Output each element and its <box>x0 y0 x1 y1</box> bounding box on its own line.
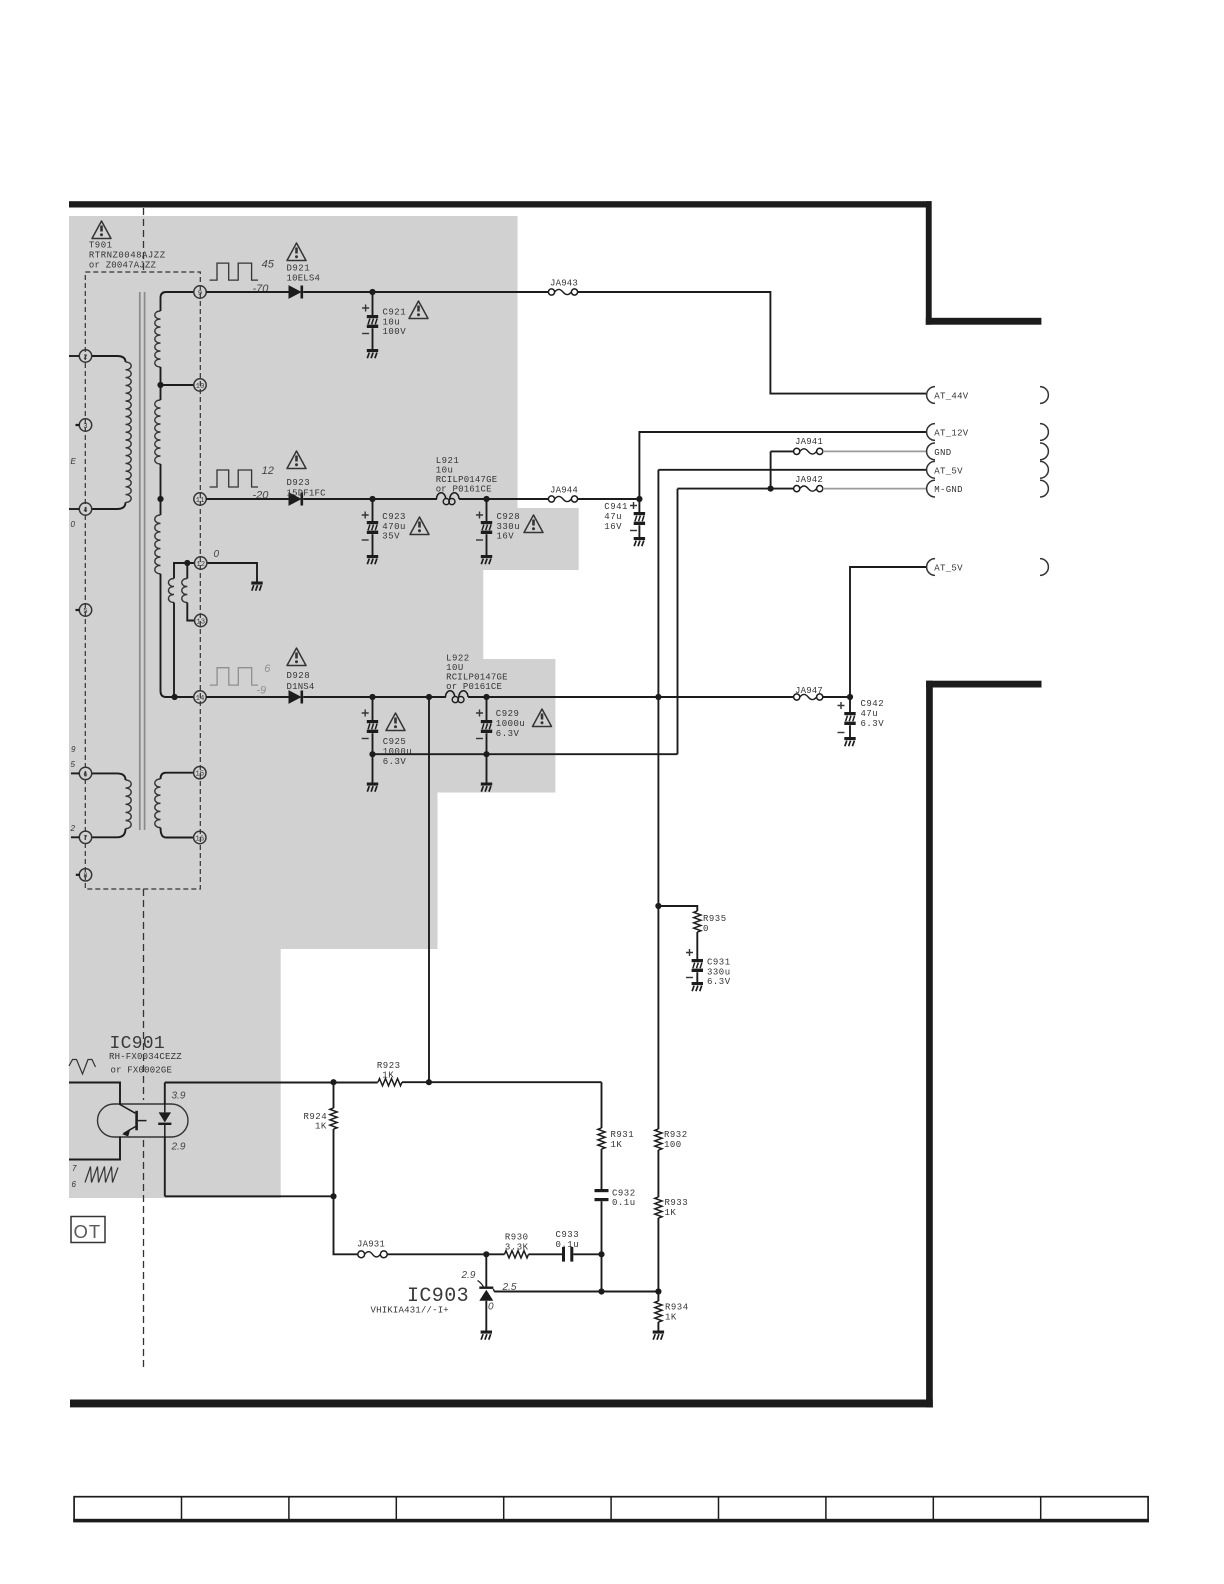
waveform sawtooth above IC901 <box>69 1060 96 1075</box>
warning triangle C929 <box>533 709 552 727</box>
connector AT_5V <box>927 461 1049 478</box>
wire GND corner <box>771 451 794 488</box>
pin 7 <box>79 831 91 843</box>
svg-text:1000u: 1000u <box>496 719 526 729</box>
waveform value -70 <box>253 283 270 295</box>
capacitor C923 <box>362 499 378 555</box>
wire down to JA931 <box>334 1196 358 1254</box>
resistor R924 <box>304 1082 338 1131</box>
svg-text:470u: 470u <box>382 522 406 532</box>
wire R931 to C932 <box>601 1149 603 1189</box>
T901 secondary winding pins 15-16 <box>155 773 194 838</box>
svg-text:2: 2 <box>83 354 87 362</box>
pin 13 <box>195 614 207 626</box>
svg-text:2: 2 <box>70 824 76 833</box>
svg-text:C928: C928 <box>497 512 521 522</box>
svg-text:7: 7 <box>83 835 87 843</box>
wire stub pin 2 <box>69 355 79 357</box>
ground below C923 <box>367 555 378 564</box>
svg-text:R924: R924 <box>304 1112 328 1122</box>
pin 3 <box>79 419 91 431</box>
pin 10 <box>194 379 206 391</box>
ground below C941 <box>634 537 645 546</box>
svg-text:0: 0 <box>703 924 709 934</box>
svg-text:R932: R932 <box>664 1130 688 1140</box>
wire M-GND vertical to negative rail <box>677 489 679 755</box>
wire AT_5V row <box>658 469 926 471</box>
wire D921 to AT_44V via JA943 <box>303 292 926 394</box>
svg-text:RH-FX0034CEZZ: RH-FX0034CEZZ <box>109 1052 182 1062</box>
pin 14 <box>194 691 206 703</box>
IC903 ref tick <box>478 1281 484 1288</box>
svg-text:1K: 1K <box>611 1140 623 1150</box>
warning triangle C921 <box>409 301 428 319</box>
junction C932 bottom <box>598 1251 604 1257</box>
svg-text:L922: L922 <box>446 654 470 664</box>
svg-text:JA944: JA944 <box>550 486 578 496</box>
svg-text:6: 6 <box>72 1180 77 1189</box>
svg-text:-9: -9 <box>256 685 266 697</box>
ground below C928 <box>481 555 492 564</box>
svg-text:C941: C941 <box>604 502 628 512</box>
junction feedback <box>426 1079 432 1085</box>
svg-text:10u: 10u <box>436 466 454 476</box>
wire R923 to R931 corner <box>402 1081 602 1083</box>
svg-text:AT_44V: AT_44V <box>934 392 969 402</box>
node voltage 2.9 opto <box>171 1141 186 1152</box>
IC901 phototransistor <box>120 1105 147 1137</box>
C941 label <box>604 502 637 532</box>
jumper JA943 <box>548 279 578 296</box>
wire stub pin 7 <box>71 836 79 838</box>
svg-text:10ELS4: 10ELS4 <box>287 274 321 284</box>
IC901 LED <box>158 1104 171 1137</box>
ground below C931 <box>692 982 703 991</box>
wire pin9 to D921 <box>206 291 289 293</box>
pin 5 <box>79 604 91 616</box>
svg-text:C932: C932 <box>612 1188 636 1198</box>
svg-text:AT_5V: AT_5V <box>934 564 963 574</box>
resistor R932 <box>655 1129 688 1150</box>
wire IC901 cathode down <box>164 1137 166 1197</box>
frame lower-right section <box>926 681 1041 1408</box>
gray shaded circuit region <box>69 216 579 1198</box>
svg-text:6: 6 <box>83 771 87 779</box>
node voltage 2.9 ic903 <box>461 1270 476 1281</box>
svg-text:L921: L921 <box>436 456 460 466</box>
svg-text:E: E <box>71 457 77 466</box>
wire C933 to R931 node <box>573 1253 601 1255</box>
wire pin11 to D923 <box>206 498 289 500</box>
svg-text:C931: C931 <box>707 958 731 968</box>
svg-text:T901: T901 <box>89 241 113 251</box>
svg-text:or P0161CE: or P0161CE <box>436 485 492 495</box>
pin 9 <box>194 286 206 298</box>
left edge label 5 <box>71 760 76 769</box>
junction C929 top <box>483 694 489 700</box>
tick at pin 5 <box>76 609 80 611</box>
waveform value 12 <box>262 465 274 477</box>
svg-text:R931: R931 <box>611 1130 635 1140</box>
transformer T901 label <box>89 241 166 271</box>
wire pin14 to D928 <box>206 696 289 698</box>
svg-text:AT_12V: AT_12V <box>934 429 969 439</box>
svg-text:D1NS4: D1NS4 <box>287 682 315 692</box>
wire cathode row <box>165 1195 334 1197</box>
waveform value -9 <box>256 685 266 697</box>
pin 15 <box>194 767 206 779</box>
wire stub pin 6 <box>71 772 79 774</box>
svg-text:1K: 1K <box>382 1071 394 1081</box>
frame bottom bar <box>70 1400 933 1408</box>
warning triangle C925 <box>386 713 405 731</box>
svg-text:6: 6 <box>264 663 271 675</box>
pin 4 <box>79 503 91 515</box>
node voltage 2.5 <box>502 1282 517 1293</box>
pin 2 <box>79 350 91 362</box>
svg-text:VHIKIA431//-I+: VHIKIA431//-I+ <box>371 1305 449 1315</box>
svg-text:C921: C921 <box>383 308 407 318</box>
tick at pin 3 <box>76 424 80 426</box>
node voltage 0 at pin12 <box>214 549 220 560</box>
ground below C942 <box>844 737 855 746</box>
OT box <box>71 1217 105 1243</box>
svg-text:47u: 47u <box>861 709 879 719</box>
svg-text:or P0161CE: or P0161CE <box>446 682 502 692</box>
svg-text:3.3K: 3.3K <box>505 1242 529 1252</box>
svg-text:3: 3 <box>83 423 87 431</box>
resistor R923 <box>377 1061 402 1086</box>
ground below C925 <box>367 783 378 792</box>
wire C932 to ref node <box>598 1201 604 1294</box>
wire IC903 cathode <box>485 1254 487 1286</box>
wire pin10 tap <box>157 382 193 388</box>
svg-text:R930: R930 <box>505 1233 529 1243</box>
junction C925 top <box>369 694 375 700</box>
pin 11 <box>194 493 206 505</box>
svg-text:8: 8 <box>83 873 87 881</box>
waveform value 6 <box>264 663 271 675</box>
node voltage 0 ic903 <box>488 1301 494 1312</box>
svg-text:C942: C942 <box>861 699 885 709</box>
capacitor C925 <box>362 697 378 783</box>
pin 6 <box>79 767 91 779</box>
negative rail <box>373 753 678 755</box>
wire IC901 anode to R923 line <box>165 1083 378 1105</box>
tick at pin 8 <box>76 874 80 876</box>
left edge label 0 <box>71 520 76 529</box>
svg-text:AT_5V: AT_5V <box>934 466 963 476</box>
svg-text:JA931: JA931 <box>357 1240 385 1250</box>
hot-cold isolation dashed line lower <box>143 889 145 1368</box>
svg-text:C933: C933 <box>556 1230 580 1240</box>
svg-text:1K: 1K <box>665 1312 677 1322</box>
svg-text:16V: 16V <box>604 522 622 532</box>
left edge label 9 <box>71 745 76 754</box>
wire AT_5V lower <box>850 567 926 697</box>
svg-text:100: 100 <box>664 1140 682 1150</box>
svg-text:D928: D928 <box>287 671 311 681</box>
junction R934 top <box>655 1288 661 1294</box>
warning triangle D921 <box>287 243 306 261</box>
resistor R930 <box>486 1233 528 1258</box>
frame upper-right notch <box>926 201 1042 325</box>
wire IC903 anode <box>485 1301 487 1331</box>
svg-text:D923: D923 <box>287 478 311 488</box>
svg-text:0: 0 <box>488 1301 494 1312</box>
svg-text:7: 7 <box>72 1164 77 1173</box>
svg-text:0.1u: 0.1u <box>612 1198 636 1208</box>
capacitor C932 <box>595 1188 636 1208</box>
wire M-GND rail <box>678 486 794 492</box>
svg-text:15DF1FC: 15DF1FC <box>287 488 327 498</box>
svg-text:9: 9 <box>198 290 202 298</box>
wire IC903 out row <box>495 1291 659 1293</box>
junction R935 tee <box>655 903 661 909</box>
wire JA947 to C942 <box>823 696 850 698</box>
wire stub pin 4 <box>69 508 79 510</box>
svg-text:GND: GND <box>934 448 951 458</box>
svg-text:or Z0047AJZZ: or Z0047AJZZ <box>89 260 157 270</box>
svg-text:JA943: JA943 <box>550 279 578 289</box>
svg-text:35V: 35V <box>382 532 400 542</box>
wire IC901 left emitter <box>69 1137 120 1160</box>
ground at pin 12 <box>251 582 262 591</box>
warning triangle T901 <box>92 221 111 239</box>
frame top bar <box>69 201 932 207</box>
junction C928 top <box>483 496 489 502</box>
svg-text:10: 10 <box>196 383 205 391</box>
T901 aux winding pins 12-13 <box>168 560 194 700</box>
capacitor C921 <box>362 292 378 349</box>
jumper JA931 <box>357 1240 387 1258</box>
svg-text:330u: 330u <box>497 522 521 532</box>
svg-text:D921: D921 <box>287 264 311 274</box>
C942 label <box>861 699 885 729</box>
warning triangle D923 <box>287 451 306 469</box>
svg-text:6.3V: 6.3V <box>861 719 885 729</box>
pin 8 <box>79 869 91 881</box>
svg-text:10u: 10u <box>383 317 401 327</box>
C929 label <box>496 709 526 739</box>
junction IC903 ref <box>483 1251 489 1257</box>
hot-cold isolation dashed line upper <box>143 208 145 272</box>
svg-text:JA941: JA941 <box>795 437 823 447</box>
svg-text:OT: OT <box>74 1221 102 1242</box>
IC903 label <box>371 1285 470 1315</box>
jumper JA942 <box>794 475 823 492</box>
L921 label <box>436 456 498 495</box>
waveform sawtooth below IC901 <box>85 1167 118 1183</box>
wire R934 to ground <box>657 1322 659 1331</box>
svg-text:6.3V: 6.3V <box>496 729 520 739</box>
svg-text:330u: 330u <box>707 967 731 977</box>
pin 16 <box>194 831 206 843</box>
wire JA942 to M-GND connector <box>823 488 926 490</box>
wire R933 to junction <box>657 1218 659 1292</box>
wire D923 to L921 <box>303 498 437 500</box>
pin 12 ground wire <box>207 563 257 582</box>
connector M-GND <box>927 480 1049 497</box>
svg-text:0: 0 <box>214 549 220 560</box>
wire R930 to C933 <box>529 1253 563 1255</box>
svg-text:5: 5 <box>71 760 76 769</box>
svg-text:RCILP0147GE: RCILP0147GE <box>446 673 508 683</box>
wire R924 to cathode row <box>330 1129 336 1199</box>
waveform square wave row3 <box>210 668 258 685</box>
svg-text:100V: 100V <box>383 327 407 337</box>
C925 label <box>383 737 413 767</box>
svg-text:2.9: 2.9 <box>461 1270 476 1281</box>
svg-text:2.9: 2.9 <box>171 1141 186 1152</box>
capacitor C931 <box>686 932 703 982</box>
svg-text:14: 14 <box>196 695 205 703</box>
waveform square wave row2 <box>210 470 258 487</box>
capacitor C941 <box>634 499 645 537</box>
svg-text:1K: 1K <box>665 1208 677 1218</box>
svg-text:JA947: JA947 <box>795 686 823 696</box>
svg-text:47u: 47u <box>604 512 622 522</box>
wire D928 to L922 <box>303 696 446 698</box>
title block table <box>73 1497 1149 1523</box>
jumper JA941 <box>794 437 823 455</box>
capacitor C942 <box>838 697 856 737</box>
connector GND <box>927 443 1049 460</box>
wire AT_5V vertical <box>657 470 659 1129</box>
svg-text:JA942: JA942 <box>795 475 823 485</box>
resistor R931 <box>598 1082 634 1150</box>
svg-text:C925: C925 <box>383 737 407 747</box>
inductor L922 <box>446 691 469 703</box>
T901 primary winding pins 6-7 <box>92 773 131 837</box>
jumper JA944 <box>548 486 578 503</box>
svg-text:R934: R934 <box>665 1303 689 1313</box>
wire AT_12V <box>639 432 926 499</box>
resistor R933 <box>655 1197 688 1218</box>
svg-text:R933: R933 <box>665 1198 689 1208</box>
connector AT_12V <box>927 424 1049 441</box>
waveform square wave row1 <box>210 263 258 280</box>
svg-text:9: 9 <box>71 745 76 754</box>
resistor R935 <box>694 911 727 934</box>
svg-text:12: 12 <box>262 465 274 477</box>
waveform label 7 <box>72 1164 77 1173</box>
svg-text:or FX0002GE: or FX0002GE <box>111 1065 173 1075</box>
wire 5V feedback vertical <box>426 694 432 1082</box>
junction AT5V line row3 <box>655 694 661 700</box>
svg-text:6.3V: 6.3V <box>383 757 407 767</box>
C921 label <box>383 308 407 338</box>
svg-text:RTRNZ0048AJZZ: RTRNZ0048AJZZ <box>89 251 166 261</box>
capacitor C928 <box>476 499 492 555</box>
svg-text:1000u: 1000u <box>383 747 413 757</box>
C923 label <box>382 512 406 542</box>
transformer T901 dashed boundary box <box>85 272 200 889</box>
capacitor C933 <box>556 1230 580 1261</box>
svg-text:M-GND: M-GND <box>934 485 963 495</box>
svg-text:R935: R935 <box>703 914 727 924</box>
junction C942 top <box>847 694 853 700</box>
junction C923 top <box>369 496 375 502</box>
diode D921 <box>287 264 321 299</box>
pin 12 <box>195 557 207 569</box>
svg-text:45: 45 <box>262 258 275 270</box>
svg-text:C923: C923 <box>382 512 406 522</box>
connector AT_44V <box>927 387 1049 404</box>
capacitor C929 <box>476 697 492 783</box>
junction C921 top <box>369 289 375 295</box>
wire JA944 to C941 <box>578 498 640 500</box>
ground below C929 <box>481 783 492 792</box>
node voltage 3.9 <box>172 1090 186 1101</box>
wire L922 to JA947 <box>468 696 793 698</box>
jumper JA947 <box>794 686 823 700</box>
resistor R934 <box>655 1292 689 1323</box>
svg-text:13: 13 <box>196 618 205 626</box>
svg-text:-70: -70 <box>253 283 270 295</box>
optocoupler IC901 body <box>98 1104 189 1137</box>
left edge label E <box>71 457 77 466</box>
ground below R934 <box>653 1331 664 1340</box>
svg-text:R923: R923 <box>377 1061 401 1071</box>
shunt regulator IC903 <box>479 1287 495 1301</box>
junction R924 top <box>330 1079 336 1085</box>
warning triangle C923 <box>410 517 429 535</box>
svg-text:C929: C929 <box>496 709 520 719</box>
left edge label 2 <box>70 824 76 833</box>
C928 label <box>497 512 521 542</box>
wire L921 to JA944 <box>459 498 548 500</box>
diode D923 <box>287 478 327 506</box>
junction C941 top <box>636 496 642 502</box>
inductor L921 <box>437 493 460 505</box>
IC901 label <box>109 1034 182 1075</box>
wire JA931 to IC903 node <box>387 1253 486 1255</box>
svg-text:0.1u: 0.1u <box>556 1240 580 1250</box>
svg-text:5: 5 <box>83 608 87 616</box>
svg-text:15: 15 <box>195 771 204 779</box>
diode D928 <box>287 671 315 704</box>
waveform value 45 <box>262 258 275 270</box>
svg-text:1K: 1K <box>315 1122 327 1132</box>
svg-text:10U: 10U <box>446 663 464 673</box>
svg-text:0: 0 <box>71 520 76 529</box>
svg-text:11: 11 <box>196 497 205 505</box>
svg-text:16V: 16V <box>497 532 515 542</box>
ground below C921 <box>367 349 378 358</box>
svg-text:3.9: 3.9 <box>172 1090 186 1101</box>
svg-text:12: 12 <box>196 561 205 569</box>
svg-text:16: 16 <box>195 835 204 843</box>
ground below IC903 <box>481 1331 492 1340</box>
wire R932 to R933 <box>657 1150 659 1197</box>
warning triangle C928 <box>524 515 543 533</box>
wire pin11 tap <box>157 496 163 502</box>
connector AT_5V lower <box>927 559 1049 576</box>
wire R935 tee <box>658 906 697 911</box>
warning triangle D928 <box>287 648 306 666</box>
wire JA941 to GND connector <box>823 450 926 452</box>
C931 label <box>707 958 731 988</box>
transformer core <box>140 292 145 830</box>
T901 secondary winding pins 9-14 <box>155 292 194 697</box>
T901 primary winding pins 2-4 <box>92 356 131 509</box>
L922 label <box>446 654 508 693</box>
waveform value -20 <box>253 490 270 502</box>
wire IC901 left collector <box>69 1083 120 1106</box>
waveform label 6 <box>72 1180 77 1189</box>
svg-text:6.3V: 6.3V <box>707 977 731 987</box>
